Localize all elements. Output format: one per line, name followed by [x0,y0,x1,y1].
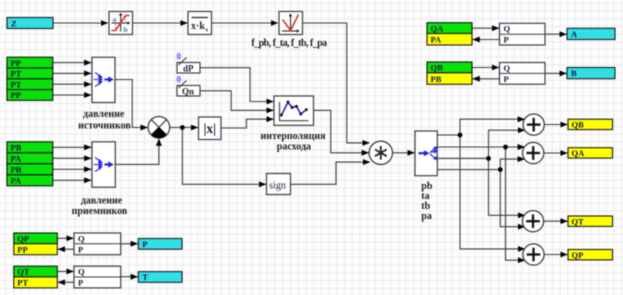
wire demux ta output to node ta and sum QA input 1 [437,146,525,148]
variable block Qn [177,75,201,97]
wire interpolation to product input 2 [314,110,369,153]
port block PT (group T) [14,277,58,288]
port block PP (sources row 4) [7,90,53,101]
wire converter T back to PT [58,281,74,283]
svg-text:A: A [571,29,578,39]
gain block x*ks [188,12,212,35]
wire Z to saturation [53,22,108,24]
wire PA row4 to mux2 [53,179,92,181]
svg-text:QP: QP [17,234,29,244]
wire node pb up to sum QB input 1 [460,119,525,135]
svg-text:Q: Q [504,63,511,73]
output block QP [568,250,613,260]
product block * [369,141,392,164]
demux block pb ta tb pa [415,131,438,176]
svg-text:PA: PA [431,35,443,45]
wire PB row3 to mux2 [53,168,92,170]
port block QP (group P) [14,233,58,244]
wire sign to product input 3 [291,162,371,184]
sum block QP [523,244,544,265]
wire converter P to output P [121,243,138,245]
svg-text:sign: sign [269,181,286,192]
wire mux2 to sum bottom input [115,139,159,165]
wire node pb down to sum QP input 1 [460,135,525,249]
svg-text:x·k: x·k [191,21,205,32]
port block PA (group A) [427,34,472,46]
svg-text:приемников: приемников [72,206,128,217]
svg-text:Q: Q [78,267,85,277]
port block QB (group B) [427,62,472,73]
source block Z [7,18,53,29]
wire mux1 to sum left input [115,80,148,128]
output block QA [568,148,613,158]
svg-text:PP: PP [11,90,21,100]
sum block (sources minus receivers) [148,117,170,139]
svg-text:расхода: расхода [277,142,311,153]
svg-text:f_pb, f_ta, f_tb, f_pa: f_pb, f_ta, f_tb, f_pa [251,38,327,49]
wire demux tb output to node tb [437,157,488,159]
port block PA (receivers row 2) [7,153,53,164]
svg-text:QA: QA [572,148,586,158]
svg-text:QT: QT [572,216,585,226]
svg-text:Z: Z [11,18,17,28]
svg-text:P: P [78,278,83,288]
svg-text:PB: PB [11,143,22,153]
svg-text:P: P [504,74,509,84]
wire sum QT to output QT [544,220,568,222]
wire dP to interpolation input 1 [200,68,274,102]
output block B [567,68,615,79]
wire PP row1 to mux1 [53,62,92,64]
sign block [267,174,291,195]
svg-text:dP: dP [183,64,194,74]
svg-text:PP: PP [11,58,21,68]
sum block QT [522,211,543,232]
converter block T (Q P) [74,266,121,288]
svg-text:Qn: Qn [182,87,194,97]
junction node pa [498,167,503,172]
svg-text:QT: QT [17,267,30,277]
wire node pa up to sum QA input 2 [500,159,525,170]
output block P [138,239,182,250]
saturation block U1 [109,12,133,35]
port block QA (group A) [427,23,472,34]
output block T [138,272,182,283]
svg-text:P: P [142,239,147,249]
abs block |x| [199,117,222,140]
port block PA (receivers row 4) [7,175,53,186]
wire gain to lookup [212,22,279,24]
wire converter T to output T [121,276,138,278]
output block QT [568,216,613,226]
svg-text:QB: QB [431,63,444,73]
lookup table block f_pb f_ta f_tb f_pa [279,12,303,35]
wire node ta down to sum QP input 2 [506,147,526,260]
svg-text:P: P [78,244,83,254]
wire sum to abs block [170,127,198,129]
junction node after sum [180,125,185,130]
svg-text:PP: PP [17,244,27,254]
svg-text:QA: QA [431,23,445,33]
wire QB to converter B [472,67,499,69]
port block PB (group B) [427,73,472,85]
output block QB [568,119,613,129]
junction node ta [503,145,508,150]
svg-text:Q: Q [78,233,85,243]
wire converter B to output B [545,72,567,74]
svg-text:0: 0 [177,75,182,85]
converter block A (Q P) [500,23,546,45]
svg-text:QB: QB [572,120,585,130]
svg-text:PB: PB [431,74,442,84]
interpolation block [274,96,314,125]
svg-text:источников: источников [78,121,131,132]
wire QP to converter P [57,237,73,239]
svg-text:B: B [571,68,577,78]
svg-text:pa: pa [421,211,432,222]
wire converter B P back to PB [473,78,500,80]
wire PA row2 to mux2 [53,157,92,159]
wire PP row4 to mux1 [53,94,92,96]
svg-text:Q: Q [504,24,511,34]
mux davlenie istochnikov [92,57,115,102]
sum block QB [523,114,544,135]
port block PT (sources row 3) [7,79,53,90]
port block QT (group T) [14,266,58,277]
svg-text:PA: PA [11,154,23,164]
wire QT to converter T [57,270,73,272]
wire converter A P back to PA [473,39,500,41]
wire abs to interpolation input 3 [221,119,274,128]
converter block P (Q P) [74,233,121,255]
wire node tb up to sum QB input 2 [489,130,526,158]
svg-text:PT: PT [11,69,22,79]
svg-text:QP: QP [572,250,584,260]
svg-text:давление: давление [83,109,125,120]
svg-text:PA: PA [11,176,23,186]
svg-text:интерполяция: интерполяция [260,131,326,142]
wire junction down to sign block [182,128,266,185]
wire lookup to product input 1 [303,23,370,143]
wire converter A to output A [545,33,567,35]
junction node tb [486,156,491,161]
wire converter P back to PP [58,248,74,250]
svg-text:давление: давление [81,195,123,206]
wire PT row2 to mux1 [53,72,92,74]
output block A [567,28,615,39]
wire node pa down to sum QT input 2 [500,170,525,227]
mux davlenie priemnikov [92,142,115,187]
svg-text:PT: PT [17,278,28,288]
wire node tb down to sum QT input 1 [489,158,526,215]
svg-text:PB: PB [11,165,22,175]
port block PB (receivers row 1) [7,142,53,153]
svg-text:a: a [113,15,117,24]
port block PP (group P) [14,244,58,255]
svg-text:T: T [142,272,148,282]
wire sum QB to output QB [544,124,567,126]
wire sum QA to output QA [544,152,568,154]
variable block dP [177,52,201,74]
wire PT row3 to mux1 [53,83,92,85]
svg-text:|x|: |x| [203,121,216,136]
wire Qn to interpolation input 2 [200,91,274,111]
port block PT (sources row 2) [7,68,53,79]
svg-text:b: b [124,25,128,34]
svg-text:PT: PT [11,79,22,89]
junction node pb [458,133,463,138]
wire saturation to gain [133,22,188,24]
wire PB row1 to mux2 [53,146,92,148]
wire demux pb output to node pb [437,134,460,136]
svg-text:P: P [504,35,509,45]
sum block QA [523,142,544,163]
wire product to demux [393,152,415,154]
converter block B (Q P) [500,63,546,85]
port block PB (receivers row 3) [7,164,53,175]
port block PP (sources row 1) [7,57,53,68]
wire demux pa output to node pa [437,169,500,171]
svg-text:0: 0 [177,52,182,62]
wire QA to converter A [472,27,499,29]
wire sum QP to output QP [544,254,567,256]
